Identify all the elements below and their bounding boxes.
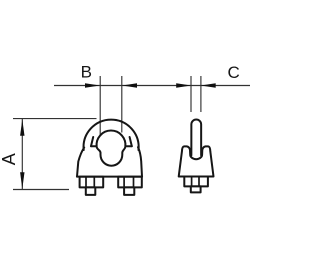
- arrowhead C left: [176, 83, 191, 87]
- dimension A top extension line: [13, 118, 97, 120]
- front view: left bolt end: [86, 187, 96, 195]
- front view: rope hole (U-bolt inner opening): [97, 131, 126, 166]
- front view: right nut: [118, 177, 142, 188]
- side view: bolt end: [191, 186, 201, 192]
- arrowhead B right: [122, 83, 137, 87]
- front view: right nut facet lines: [124, 178, 133, 187]
- front view: right bolt end: [124, 187, 134, 195]
- arrowhead A bottom: [20, 172, 24, 189]
- front view: saddle left side outline: [77, 148, 84, 177]
- arrowhead C right: [201, 83, 216, 87]
- front view: U-bolt outer arch arc: [84, 120, 139, 150]
- arrowhead A top: [20, 119, 24, 136]
- dimension C right extension line: [200, 76, 202, 112]
- svg-text:C: C: [228, 63, 240, 82]
- side view: U-bolt rod (seen from side): [191, 120, 201, 156]
- front view: left nut: [80, 177, 104, 188]
- front view: U-bolt right leg edge: [130, 137, 132, 146]
- dimension B right extension line: [121, 76, 123, 133]
- front view: saddle body fill: [77, 146, 142, 176]
- side view: nut: [184, 177, 208, 187]
- svg-text:A: A: [0, 153, 19, 165]
- dimension A bottom extension line: [13, 189, 69, 191]
- side view: nut facet lines: [192, 177, 199, 186]
- dimension A vertical dimension line: [21, 119, 23, 190]
- dimension C left extension line: [190, 76, 192, 112]
- front view: saddle bottom edge: [77, 176, 142, 178]
- side view: saddle body: [179, 146, 214, 176]
- front view: saddle right side outline: [138, 147, 142, 176]
- arrowhead B left: [85, 83, 100, 87]
- front view: saddle ledge edge: [91, 145, 132, 147]
- dimension B/C horizontal dimension line: [54, 85, 250, 87]
- dimension B left extension line: [99, 76, 101, 137]
- front view: left nut facet lines: [86, 178, 94, 187]
- front view: U-bolt left leg edge: [91, 137, 93, 146]
- svg-text:B: B: [81, 62, 92, 81]
